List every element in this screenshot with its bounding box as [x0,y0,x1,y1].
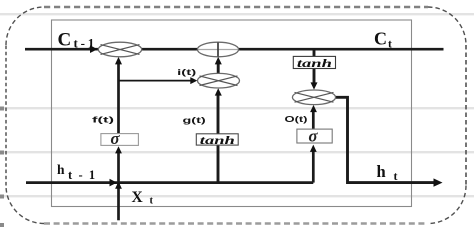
svg-text:h: h [57,162,65,177]
arrow up at X junction [115,182,122,189]
wire: input multiplier to adder [217,63,220,74]
scan streak band 3 [0,151,474,153]
svg-text:t: t [394,169,398,183]
arrow into output multiplier bottom [310,105,317,112]
svg-text:tanh: tanh [297,56,332,70]
label h_t [377,162,398,183]
inner cell box [52,20,412,207]
svg-text:tanh: tanh [200,133,235,147]
scan streak band 1 [0,13,474,15]
arrow into input multiplier left [190,77,197,84]
svg-text:t: t [150,196,154,207]
wire: f gate vertical (junction to sigma box) [117,152,120,183]
svg-text:t-1: t-1 [68,168,101,182]
svg-text:t-1: t-1 [74,36,98,51]
arrow into O sigma box [310,145,317,152]
arrow on h line at X junction [110,179,118,187]
svg-text:g(t): g(t) [183,115,206,125]
wire: O sigma box to output multiplier [312,111,315,129]
svg-text:σ: σ [308,126,318,145]
svg-text:X: X [132,189,144,206]
outer border bottom-right corner [428,186,466,224]
wire: f gate vertical (sigma box to forget multiplier) [117,63,120,134]
g tanh box [196,133,238,147]
tanh box (cell output) [293,56,335,70]
svg-text:h: h [377,162,386,181]
svg-text:O(t): O(t) [285,114,308,124]
wire: tanh box down to output multiplier [313,69,316,84]
outer border top edge [44,6,428,9]
wire: hidden-state line h (bottom) [26,181,313,184]
adder (+) on C line [197,42,238,57]
left edge smudges [0,107,4,228]
output multiplier (x) [292,90,335,105]
wire: O gate vertical (h line end up to sigma box) [312,151,315,183]
O sigma box [297,126,332,145]
outer border left edge [5,45,7,186]
wire: g gate vertical below tanh box [217,144,220,183]
svg-text:C: C [58,30,72,51]
outer border right edge [465,45,467,186]
wire: x(t) input vertical [117,183,120,220]
outer border bottom-left corner [6,186,44,224]
outer border top-right corner [428,7,466,45]
svg-text:i(t): i(t) [177,67,196,77]
label C_t [374,29,392,51]
wire: g gate vertical above tanh box [217,95,220,135]
arrow h_t output [434,178,443,186]
label X_t [132,189,154,207]
svg-text:C: C [374,29,387,49]
arrow into input multiplier bottom [215,88,222,95]
arrow into adder bottom [215,57,222,65]
f sigma box [101,129,138,148]
wire: C line stub down to tanh box [313,49,316,56]
svg-text:σ: σ [110,129,120,148]
wire: cell-state line C (top) [25,48,444,51]
forget multiplier (x) on C line [98,42,141,57]
arrow into forget multiplier bottom [115,57,122,65]
scan streak band 4 [0,195,474,197]
wire: i(t) branch [119,80,192,82]
outer border top-left corner [6,7,44,45]
arrow into output multiplier top [311,82,318,89]
svg-text:t: t [388,39,392,51]
arrow into f sigma box [115,146,122,153]
arrow into forget-multiplier [90,45,98,53]
label h_t-1 [57,162,101,182]
svg-text:f(t): f(t) [92,115,114,125]
input multiplier (x) i gate [198,73,240,88]
wire: output multiplier to h_t (right, down, right) [335,97,435,182]
scan streak band 2 [0,107,474,109]
label C_t-1 [58,30,98,51]
outer border bottom edge (lighter) [44,222,428,225]
